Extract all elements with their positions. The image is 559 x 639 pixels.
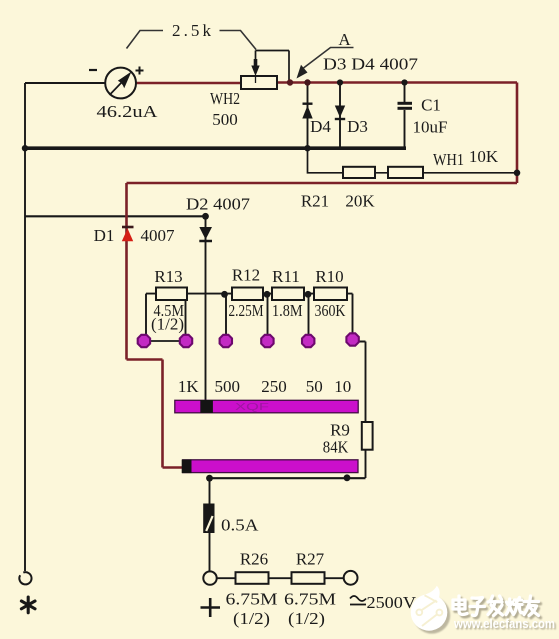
svg-text:R12: R12: [232, 266, 260, 285]
svg-text:D1: D1: [94, 226, 115, 245]
svg-text:20K: 20K: [345, 192, 375, 211]
svg-text:R21: R21: [301, 192, 329, 211]
svg-text:1.8M: 1.8M: [272, 301, 303, 320]
svg-text:10: 10: [334, 377, 351, 396]
svg-text:R10: R10: [315, 267, 343, 286]
svg-text:C1: C1: [421, 96, 441, 115]
svg-text:10uF: 10uF: [413, 118, 448, 137]
svg-text:46.2uA: 46.2uA: [97, 102, 159, 121]
svg-text:D3: D3: [347, 117, 368, 136]
svg-text:4007: 4007: [141, 226, 176, 245]
svg-text:R13: R13: [154, 267, 182, 286]
svg-text:D2 4007: D2 4007: [186, 195, 251, 214]
svg-text:R26: R26: [240, 550, 268, 569]
svg-text:A: A: [338, 30, 351, 49]
svg-text:0.5A: 0.5A: [221, 516, 259, 535]
svg-text:WH1: WH1: [433, 150, 464, 169]
svg-text:500: 500: [215, 377, 241, 396]
svg-text:(1/2): (1/2): [151, 315, 184, 334]
svg-text:2.25M: 2.25M: [229, 301, 264, 320]
svg-text:2500V: 2500V: [367, 593, 417, 612]
svg-text:50: 50: [306, 377, 323, 396]
svg-text:R27: R27: [296, 550, 325, 569]
svg-text:D3 D4 4007: D3 D4 4007: [323, 55, 419, 74]
svg-text:R11: R11: [272, 267, 300, 286]
svg-text:250: 250: [261, 377, 287, 396]
svg-text:6.75M: 6.75M: [284, 590, 336, 609]
svg-text:500: 500: [212, 110, 238, 129]
svg-text:WH2: WH2: [210, 89, 240, 108]
svg-text:D4: D4: [310, 117, 331, 136]
svg-text:XQF: XQF: [235, 401, 269, 413]
svg-text:84K: 84K: [323, 438, 349, 457]
svg-text:1K: 1K: [178, 377, 200, 396]
svg-text:(1/2): (1/2): [288, 609, 325, 628]
svg-text:360K: 360K: [315, 301, 347, 320]
svg-text:2.5k: 2.5k: [172, 21, 212, 40]
svg-text:6.75M: 6.75M: [226, 590, 278, 609]
svg-text:www.elecfans.com: www.elecfans.com: [453, 616, 555, 631]
svg-text:10K: 10K: [469, 147, 499, 166]
svg-text:(1/2): (1/2): [233, 609, 270, 628]
